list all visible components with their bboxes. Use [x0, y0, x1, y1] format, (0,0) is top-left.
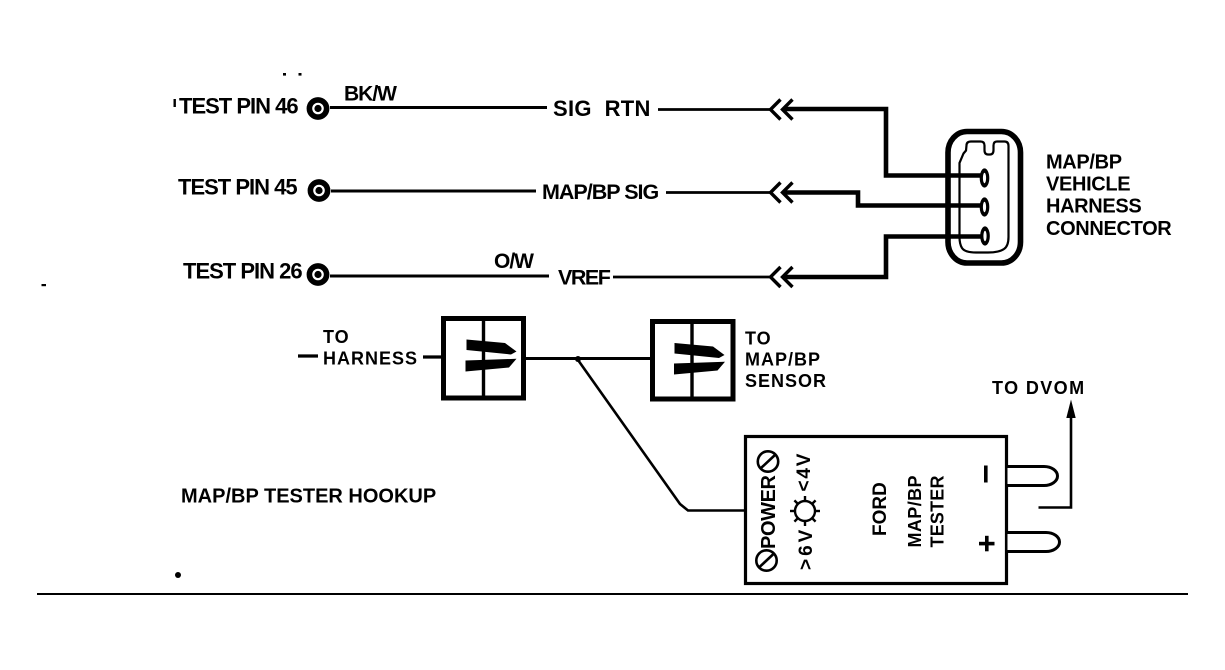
wire pin45 to MAP/BP SIG [331, 190, 536, 193]
svg-text:TO: TO [745, 329, 772, 349]
connector arrow marks row 2 [771, 183, 793, 203]
power indicator symbol top [758, 451, 778, 471]
svg-text:MAP/BP SIG: MAP/BP SIG [542, 180, 659, 204]
svg-text:TESTER: TESTER [928, 475, 948, 547]
plus terminal lug [1008, 533, 1060, 552]
svg-text:TEST PIN 26: TEST PIN 26 [183, 259, 302, 284]
connector arrow marks row 1 [771, 100, 793, 120]
tester box (FORD MAP/BP TESTER) [746, 437, 1007, 584]
wire pin46 to SIG RTN [330, 106, 547, 109]
inline connector block 1 [444, 318, 524, 398]
svg-text:TEST PIN 46: TEST PIN 46 [179, 94, 298, 119]
svg-text:O/W: O/W [494, 250, 534, 273]
inline connector block 2 [653, 320, 734, 400]
wire between connector blocks [525, 357, 651, 360]
wire SIG RTN to arrows [658, 108, 771, 111]
minus terminal lug [1008, 467, 1058, 486]
svg-text:MAP/BP: MAP/BP [905, 475, 925, 547]
svg-text:SIG RTN: SIG RTN [553, 96, 651, 121]
arrow head to DVOM [1066, 400, 1075, 419]
connector shell (MAP/BP vehicle harness connector) [948, 132, 1021, 264]
svg-text:HARNESS: HARNESS [1046, 196, 1141, 218]
wire MAP/BP SIG to arrows [666, 191, 771, 194]
test pin 26 terminal [309, 266, 326, 283]
label less than 4V (rotated) [794, 452, 815, 492]
svg-text:SENSOR: SENSOR [745, 371, 827, 391]
svg-text:VEHICLE: VEHICLE [1046, 174, 1130, 196]
svg-text:TO: TO [323, 327, 350, 347]
test pin 46 terminal [309, 100, 326, 117]
label TESTER (rotated) [928, 475, 948, 547]
label MAP/BP VEHICLE HARNESS CONNECTOR [1046, 152, 1172, 241]
wire minus lug to DVOM arrow [1039, 413, 1072, 508]
stray speck pair top [283, 73, 302, 76]
label MAP/BP (rotated) [905, 475, 925, 547]
svg-text:CONNECTOR: CONNECTOR [1046, 218, 1172, 240]
connector inner outline with keyway notch [960, 142, 1009, 253]
svg-text:MAP/BP: MAP/BP [1046, 152, 1122, 174]
svg-text:FORD: FORD [870, 482, 891, 536]
minus terminal label [984, 466, 988, 483]
svg-text:MAP/BP: MAP/BP [745, 350, 821, 370]
label greater than 6V (rotated) [796, 527, 817, 570]
wire VREF to arrows [613, 276, 771, 279]
svg-text:HARNESS: HARNESS [323, 349, 418, 369]
connector pin 2 [980, 197, 990, 216]
wire stub HARNESS to connector block 1 [423, 355, 443, 358]
wire row1 to connector pin 1 [783, 109, 981, 176]
stray tick mark [174, 99, 176, 107]
svg-text:TEST PIN 45: TEST PIN 45 [178, 175, 297, 200]
svg-text:MAP/BP TESTER HOOKUP: MAP/BP TESTER HOOKUP [181, 486, 436, 508]
wire row2 to connector pin 2 [783, 193, 981, 206]
stray dash mark [42, 284, 47, 286]
wire stub left of TO HARNESS [298, 354, 318, 357]
test pin 45 terminal [310, 182, 327, 199]
svg-text:TO DVOM: TO DVOM [992, 378, 1085, 398]
svg-text:BK/W: BK/W [344, 83, 397, 106]
svg-text:VREF: VREF [558, 266, 611, 290]
plus terminal label [979, 536, 995, 552]
connector pin 3 [980, 226, 990, 245]
wire junction to tester [578, 360, 746, 511]
LED lamp symbol [790, 496, 820, 526]
label TO MAP/BP SENSOR [745, 329, 827, 392]
junction node on wire [575, 356, 581, 362]
power indicator symbol bottom [756, 550, 776, 570]
wire row3 to connector pin 3 [783, 237, 981, 278]
connector arrow marks row 3 [771, 267, 793, 287]
connector pin 1 [980, 168, 990, 187]
svg-text:POWER: POWER [758, 474, 780, 549]
stray dot bottom left [175, 572, 181, 578]
label FORD (rotated) [870, 482, 891, 536]
svg-text:<4V: <4V [794, 452, 815, 492]
wire pin26 to VREF [330, 275, 549, 278]
bottom rule [37, 593, 1188, 595]
svg-text:>6V: >6V [796, 527, 817, 570]
label TO HARNESS [323, 327, 418, 369]
label POWER (rotated) [758, 474, 780, 549]
